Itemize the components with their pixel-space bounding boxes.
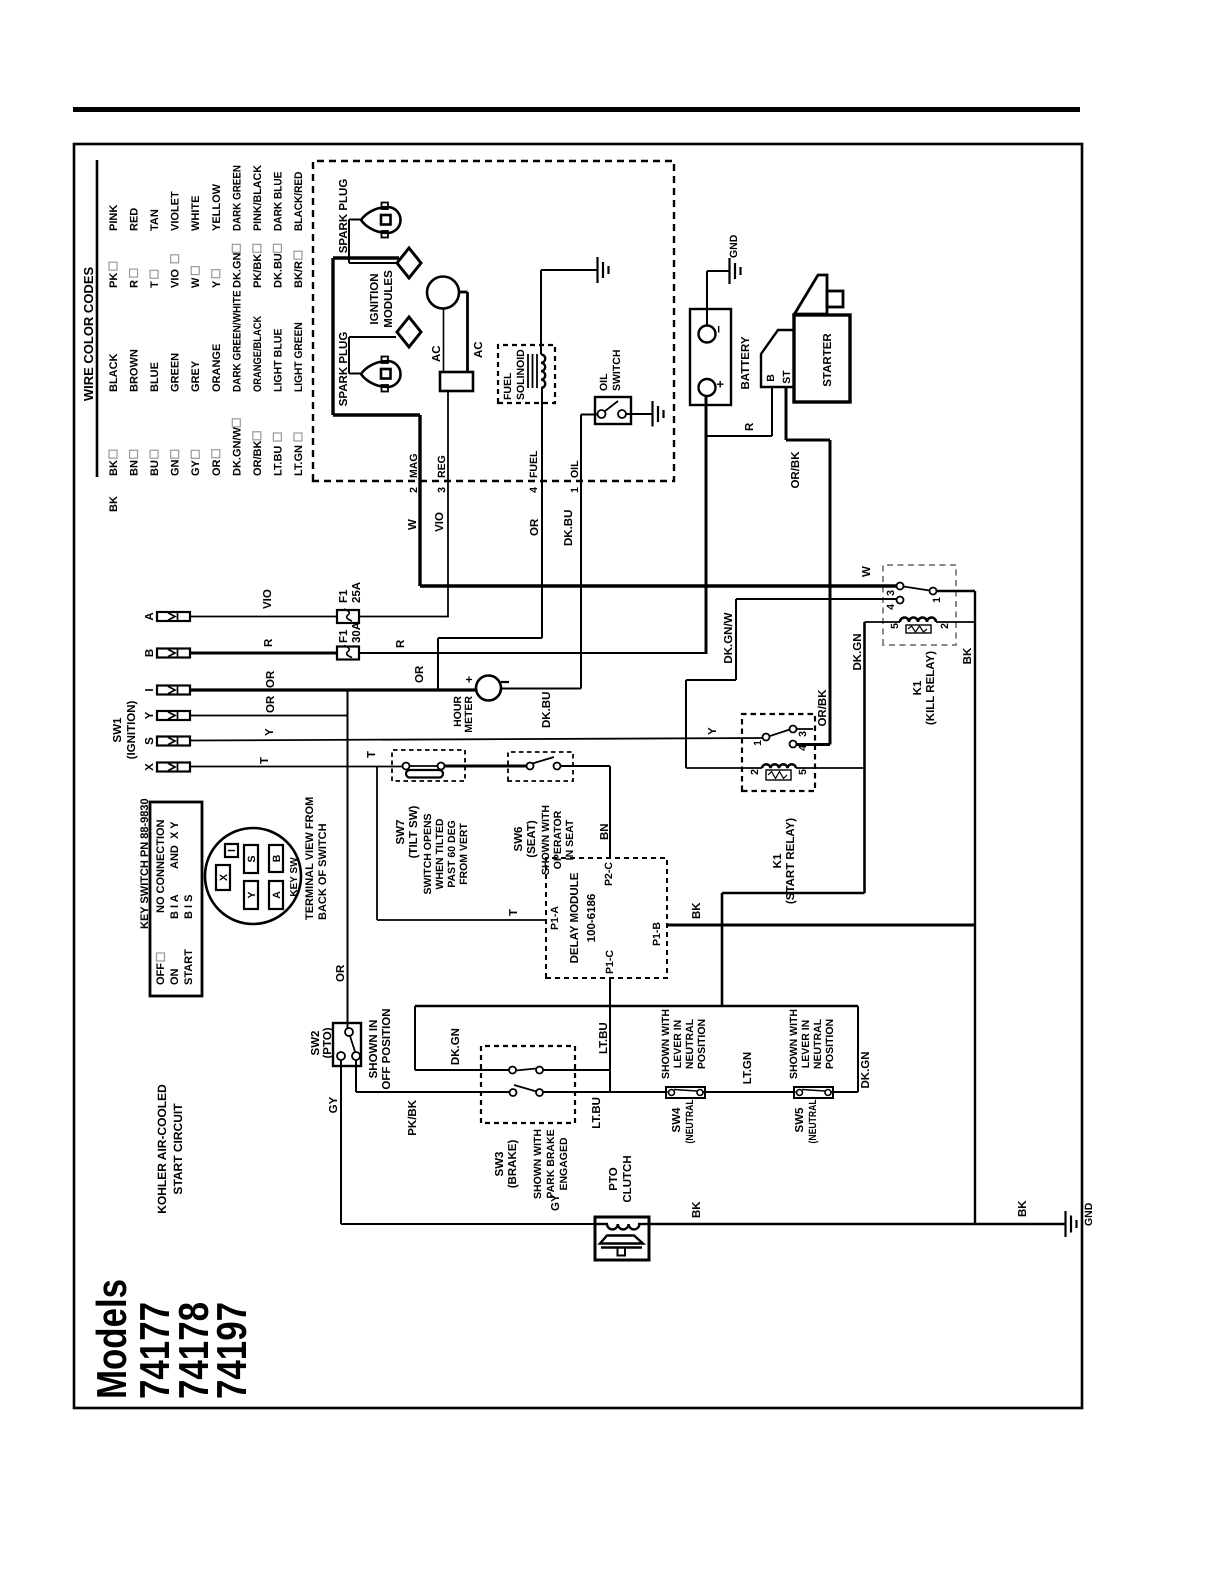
wire BK trunk (649, 1223, 1065, 1225)
wire LT.BU SW3 to SW4 (543, 1091, 668, 1093)
fuse F1 25A (337, 610, 359, 623)
wire DK.BU oil (580, 415, 582, 689)
K1 kill relay resistor (906, 625, 931, 633)
svg-text:(KILL RELAY): (KILL RELAY) (925, 651, 937, 725)
svg-text:R: R (395, 639, 407, 648)
svg-text:Y: Y (264, 728, 276, 736)
svg-text:STARTER: STARTER (822, 333, 834, 387)
svg-text:100-6186: 100-6186 (586, 894, 598, 943)
svg-text:VIO: VIO (434, 512, 446, 532)
svg-text:POSITION: POSITION (696, 1019, 708, 1069)
svg-text:PK/BK: PK/BK (407, 1099, 419, 1135)
svg-text:BK: BK (691, 1201, 703, 1218)
K1 kill relay pin 1 (930, 588, 937, 595)
svg-text:SW6: SW6 (513, 827, 525, 852)
spark plug 2 wire (349, 373, 361, 375)
svg-text:DK.GN/W: DK.GN/W (231, 427, 243, 477)
wire DK.GN trunk (415, 1005, 858, 1008)
svg-text:I: I (226, 849, 238, 852)
svg-text:OR/BK: OR/BK (252, 441, 264, 477)
svg-text:BK: BK (108, 496, 120, 512)
fuel solenoid coil (541, 354, 545, 388)
svg-text:OR: OR (335, 964, 347, 982)
spark plug 1 wire (349, 219, 361, 221)
svg-text:LT.BU: LT.BU (272, 446, 284, 476)
svg-text:DK.BU: DK.BU (272, 253, 284, 288)
svg-text:SW2: SW2 (310, 1031, 322, 1056)
K1 kill relay pin 4 (897, 597, 904, 604)
svg-text:BROWN: BROWN (129, 349, 141, 392)
wire PK/BK from SW2 to SW3 (355, 1060, 357, 1092)
svg-text:PINK/BLACK: PINK/BLACK (252, 165, 264, 231)
svg-text:YELLOW: YELLOW (211, 183, 223, 231)
wire OR fuel (541, 388, 543, 638)
svg-text:PK/BK: PK/BK (252, 254, 264, 288)
svg-text:START CIRCUIT: START CIRCUIT (171, 1103, 185, 1195)
switch SW5 (NEUTRAL) (794, 1087, 833, 1098)
wire battery - to ground (706, 271, 708, 326)
svg-text:LT.BU: LT.BU (598, 1022, 610, 1054)
svg-text:OR/BK: OR/BK (817, 689, 829, 727)
ignition module 1 (397, 248, 421, 278)
wire W to kill relay pin 3 (thick) (420, 584, 897, 587)
svg-text:S: S (246, 855, 258, 862)
svg-text:BATTERY: BATTERY (740, 336, 752, 389)
svg-text:−: − (711, 325, 726, 333)
svg-text:B I A: B I A (169, 894, 181, 919)
terminal view box I (225, 844, 238, 857)
svg-text:GND: GND (728, 234, 740, 258)
wire Y from terminal S to start relay pin 1 (190, 738, 763, 741)
svg-text:K1: K1 (912, 680, 924, 695)
terminal view box A (269, 881, 283, 909)
switch SW4 (NEUTRAL) (666, 1087, 705, 1098)
terminal view box Y (244, 881, 258, 909)
wire BK kill relay pin 1 (937, 590, 976, 592)
svg-text:NO CONNECTION: NO CONNECTION (155, 819, 167, 913)
svg-text:KOHLER AIR-COOLED: KOHLER AIR-COOLED (155, 1084, 169, 1214)
svg-text:DARK GREEN: DARK GREEN (231, 165, 243, 231)
wire W inside engine box (418, 415, 421, 586)
svg-text:SWITCH OPENS: SWITCH OPENS (422, 813, 434, 894)
svg-text:SW7: SW7 (395, 820, 407, 845)
svg-text:2: 2 (749, 769, 761, 775)
K1 kill relay arm (904, 587, 930, 591)
svg-text:P1-B: P1-B (651, 922, 663, 946)
battery (690, 309, 731, 405)
svg-text:OR: OR (211, 459, 223, 476)
svg-text:1: 1 (931, 597, 943, 603)
spark plug 2 (361, 361, 401, 387)
wire DK.GN SW5 to trunk (831, 1091, 858, 1093)
K1 start relay pin 3 (790, 726, 797, 733)
svg-text:AC: AC (473, 341, 485, 358)
svg-text:DK.GN: DK.GN (852, 633, 864, 670)
ground fuel solenoid (596, 257, 598, 283)
svg-text:LT.GN: LT.GN (742, 1052, 754, 1084)
svg-text:SWITCH: SWITCH (611, 350, 623, 391)
svg-text:FROM VERT: FROM VERT (458, 823, 470, 885)
svg-text:R: R (744, 422, 756, 431)
svg-text:OIL: OIL (598, 373, 610, 391)
wire fuel solenoid to ground (540, 270, 542, 354)
svg-text:TERMINAL VIEW FROM: TERMINAL VIEW FROM (304, 797, 316, 920)
wire VIO from terminal A (190, 616, 337, 618)
SW3 contacts DK.GN side (509, 1067, 516, 1074)
svg-text:5: 5 (889, 623, 901, 629)
svg-text:P1-A: P1-A (549, 906, 561, 930)
svg-text:PAST 60 DEG: PAST 60 DEG (446, 820, 458, 888)
regulator (440, 372, 473, 391)
node OR branch to SW2 (347, 689, 349, 1028)
svg-text:B I S: B I S (183, 895, 195, 919)
svg-text:GREY: GREY (190, 360, 202, 392)
svg-text:Y: Y (707, 727, 719, 735)
starter nose (795, 275, 828, 314)
svg-text:SW5: SW5 (794, 1107, 806, 1133)
svg-text:X: X (144, 763, 156, 771)
svg-text:METER: METER (463, 696, 475, 733)
svg-text:RED: RED (129, 208, 141, 231)
svg-text:2: 2 (408, 487, 420, 493)
svg-text:A: A (271, 891, 283, 899)
ground oil switch (626, 413, 652, 415)
svg-text:W: W (190, 277, 202, 288)
wire R below fuse to battery + (359, 652, 707, 654)
svg-text:BN: BN (129, 460, 141, 476)
svg-text:A: A (144, 612, 156, 620)
svg-text:DK.GN: DK.GN (450, 1028, 462, 1065)
wire T branch to delay module P1-A (376, 767, 378, 921)
ignition module 2 (397, 317, 421, 347)
svg-text:LEVER IN: LEVER IN (672, 1020, 684, 1068)
wire LT.BU from P1-C (609, 978, 611, 1093)
svg-text:4: 4 (885, 604, 897, 610)
fuse F1 30A (337, 647, 359, 660)
svg-text:F1: F1 (338, 589, 350, 603)
svg-text:Models: Models (88, 1279, 135, 1399)
svg-text:LT.BU: LT.BU (591, 1097, 603, 1129)
svg-text:GND: GND (1083, 1202, 1095, 1226)
svg-text:VIO: VIO (170, 269, 182, 288)
K1 start relay resistor (766, 770, 791, 780)
wire T from terminal X to SW7 (190, 766, 403, 768)
terminal view box X (216, 865, 230, 890)
svg-text:NEUTRAL: NEUTRAL (812, 1018, 824, 1069)
svg-text:BK: BK (108, 460, 120, 476)
svg-text:X Y: X Y (169, 821, 181, 839)
svg-text:BN: BN (599, 823, 611, 840)
svg-text:DARK BLUE: DARK BLUE (272, 172, 284, 231)
K1 start relay pin 4 (790, 741, 797, 748)
starter small block (827, 291, 843, 307)
wire T SW7 to SW6 (thick) (445, 765, 527, 768)
svg-text:MAG: MAG (408, 454, 420, 479)
svg-text:1: 1 (569, 487, 581, 493)
spark plug 1 (361, 207, 401, 233)
svg-text:Y: Y (211, 280, 223, 288)
svg-text:BACK OF SWITCH: BACK OF SWITCH (317, 823, 329, 920)
K1 start relay coil (686, 767, 762, 769)
svg-text:T: T (508, 909, 520, 916)
svg-text:MODULES: MODULES (383, 270, 395, 328)
wire AC thin (443, 309, 445, 373)
svg-text:(BRAKE): (BRAKE) (507, 1140, 519, 1189)
svg-text:R: R (263, 638, 275, 647)
svg-text:5: 5 (797, 769, 809, 775)
svg-text:B: B (144, 649, 156, 657)
svg-text:DELAY MODULE: DELAY MODULE (569, 872, 581, 963)
svg-text:SHOWN WITH: SHOWN WITH (532, 1129, 544, 1199)
svg-text:+: + (713, 380, 728, 388)
wire VIO below fuse to REG (359, 616, 448, 618)
wire BK from P1-B (667, 924, 975, 927)
svg-text:OFF POSITION: OFF POSITION (381, 1008, 393, 1089)
K1 kill relay pin 3 (897, 583, 904, 590)
terminal view box S (244, 845, 258, 873)
wire OR/BK starter ST to start relay pin 4 (785, 387, 788, 440)
fuel solenoid box (498, 345, 555, 403)
svg-text:LEVER IN: LEVER IN (800, 1020, 812, 1068)
svg-text:PINK: PINK (108, 205, 120, 231)
svg-text:OR: OR (265, 670, 277, 688)
wire BN from SW6 to delay module P2-C (561, 765, 611, 767)
svg-text:BU: BU (149, 460, 161, 476)
wire SW3 to P1-C junction (543, 1069, 610, 1071)
wire R starter B to battery (771, 387, 773, 436)
svg-text:DK.GN/W: DK.GN/W (723, 612, 735, 663)
svg-text:F1: F1 (338, 629, 350, 643)
svg-text:REG: REG (436, 455, 448, 478)
svg-text:OIL: OIL (569, 460, 581, 478)
svg-text:VIO: VIO (262, 589, 274, 609)
svg-text:R: R (129, 280, 141, 288)
svg-text:GY: GY (190, 459, 202, 476)
svg-text:PTO: PTO (608, 1167, 620, 1190)
K1 start relay pin3 stub (797, 728, 814, 730)
svg-text:SHOWN WITH: SHOWN WITH (788, 1009, 800, 1079)
wire DK.GN/W kill pin4 to start coil (736, 598, 897, 600)
svg-text:ENGAGED: ENGAGED (558, 1137, 570, 1191)
svg-text:ST: ST (781, 370, 793, 384)
svg-text:OPERATOR: OPERATOR (552, 810, 564, 869)
wire DK.GN from trunk to SW3 (414, 1006, 416, 1070)
svg-text:S: S (144, 737, 156, 745)
svg-text:CLUTCH: CLUTCH (622, 1155, 634, 1202)
svg-text:DK.BU: DK.BU (563, 510, 575, 546)
svg-text:OFF: OFF (155, 963, 167, 985)
svg-text:3: 3 (436, 487, 448, 493)
main border frame (74, 144, 1082, 1408)
wire R from terminal B (190, 652, 337, 655)
svg-text:B: B (765, 374, 777, 382)
engine box (313, 161, 674, 481)
switch SW2 (PTO) (333, 1023, 361, 1066)
svg-text:FUEL: FUEL (528, 450, 540, 478)
svg-text:T: T (149, 281, 161, 288)
svg-text:POSITION: POSITION (824, 1019, 836, 1069)
svg-text:SW1: SW1 (112, 717, 124, 743)
svg-text:30A: 30A (351, 622, 363, 643)
delay module 100-6186 (546, 858, 667, 978)
svg-text:2: 2 (939, 623, 951, 629)
svg-text:VIOLET: VIOLET (170, 191, 182, 231)
wire OR fuel branch (437, 638, 439, 690)
svg-text:DARK GREEN/WHITE: DARK GREEN/WHITE (231, 290, 243, 392)
svg-text:25A: 25A (351, 582, 363, 603)
svg-text:AND: AND (169, 845, 181, 869)
svg-text:OR: OR (414, 665, 426, 683)
svg-text:OR: OR (265, 695, 277, 713)
wire LT.GN SW4 to SW5 (703, 1091, 796, 1093)
svg-text:LT.GN: LT.GN (293, 445, 305, 476)
svg-text:(TILT SW): (TILT SW) (408, 805, 420, 858)
svg-text:GN: GN (170, 459, 182, 476)
svg-text:BK: BK (1017, 1200, 1029, 1217)
svg-text:LIGHT GREEN: LIGHT GREEN (293, 322, 305, 392)
svg-text:DK.GN: DK.GN (860, 1051, 872, 1088)
hour meter (476, 676, 501, 701)
key switch table (150, 802, 202, 996)
starter terminal block (761, 330, 794, 387)
svg-text:T: T (259, 757, 271, 764)
wire GY from SW2 to PTO clutch (340, 1060, 342, 1224)
svg-text:SW4: SW4 (671, 1107, 683, 1133)
svg-text:SHOWN IN: SHOWN IN (368, 1020, 380, 1079)
svg-text:(NEUTRAL): (NEUTRAL) (807, 1097, 819, 1144)
svg-text:BK/R: BK/R (293, 261, 305, 288)
wire OR from terminal I (thick) (190, 688, 477, 691)
svg-text:3: 3 (797, 731, 809, 737)
svg-text:NEUTRAL: NEUTRAL (684, 1018, 696, 1069)
svg-text:P1-C: P1-C (604, 950, 616, 974)
wire DK.GN trunk to kill relay coil (721, 893, 724, 1006)
SW3 contacts PK/BK side (510, 1089, 517, 1096)
svg-text:4: 4 (528, 487, 540, 493)
svg-text:FUEL: FUEL (502, 372, 514, 400)
legend underline (96, 160, 99, 477)
svg-text:BK: BK (691, 902, 703, 919)
svg-text:+: + (462, 676, 476, 683)
K1 start relay arm (769, 730, 789, 737)
K1 kill relay coil (865, 621, 901, 623)
svg-text:WHITE: WHITE (190, 196, 202, 231)
svg-text:ORANGE: ORANGE (211, 344, 223, 392)
svg-text:SW3: SW3 (494, 1152, 506, 1177)
svg-text:OR/BK: OR/BK (790, 451, 802, 489)
svg-text:W: W (861, 566, 873, 577)
relay K1 (START RELAY) (742, 714, 815, 791)
starter body (794, 315, 850, 402)
svg-text:74197: 74197 (208, 1302, 255, 1399)
relay K1 (KILL RELAY) (883, 565, 956, 645)
flywheel alternator (427, 277, 459, 309)
svg-text:P2-C: P2-C (603, 862, 615, 886)
svg-text:IGNITION: IGNITION (369, 273, 381, 324)
ground battery GND (728, 258, 730, 284)
svg-text:BLACK/RED: BLACK/RED (293, 172, 305, 231)
svg-text:(START RELAY): (START RELAY) (785, 818, 797, 904)
page top rule (73, 107, 1080, 112)
svg-text:X: X (218, 874, 230, 881)
svg-text:K1: K1 (772, 853, 784, 868)
svg-text:W: W (407, 519, 419, 530)
svg-text:BK: BK (962, 647, 974, 664)
svg-text:DK.GN: DK.GN (231, 253, 243, 289)
oil switch (595, 397, 631, 424)
svg-text:IN SEAT: IN SEAT (564, 819, 576, 860)
svg-text:SHOWN WITH: SHOWN WITH (540, 805, 552, 875)
svg-text:PK: PK (108, 273, 120, 288)
svg-text:I: I (144, 688, 156, 691)
svg-text:WHEN TILTED: WHEN TILTED (434, 818, 446, 889)
fuel solenoid core bars (527, 354, 529, 388)
svg-text:BLUE: BLUE (149, 362, 161, 392)
svg-text:AC: AC (431, 345, 443, 362)
svg-text:SOLINOID: SOLINOID (515, 349, 527, 400)
svg-text:BLACK: BLACK (108, 353, 120, 392)
svg-text:WIRE COLOR CODES: WIRE COLOR CODES (81, 267, 96, 402)
svg-text:DK.BU: DK.BU (541, 692, 553, 728)
svg-text:(SEAT): (SEAT) (526, 820, 538, 858)
svg-text:ORANGE/BLACK: ORANGE/BLACK (252, 316, 264, 392)
wire OR from terminal Y (190, 715, 348, 717)
svg-text:T: T (366, 751, 378, 758)
svg-text:1: 1 (752, 740, 764, 746)
svg-text:LIGHT BLUE: LIGHT BLUE (272, 329, 284, 393)
svg-text:(NEUTRAL): (NEUTRAL) (684, 1097, 696, 1144)
switch SW6 (SEAT) (508, 752, 573, 781)
switch SW7 (TILT SW) (392, 750, 465, 781)
switch SW3 (BRAKE) (481, 1046, 575, 1123)
wire meter bottom to OIL (501, 688, 581, 690)
PTO clutch (595, 1217, 649, 1260)
svg-text:GY: GY (328, 1096, 340, 1113)
K1 start relay pin 1 (763, 734, 770, 741)
svg-text:3: 3 (885, 590, 897, 596)
wire R battery + feed (705, 397, 708, 654)
svg-text:PARK BRAKE: PARK BRAKE (545, 1129, 557, 1198)
svg-text:TAN: TAN (149, 209, 161, 231)
svg-text:START: START (183, 949, 195, 985)
svg-text:SHOWN WITH: SHOWN WITH (660, 1009, 672, 1079)
wire OR/BK starter ST (785, 387, 788, 440)
ground GND bottom (1064, 1211, 1066, 1237)
svg-text:OR: OR (529, 518, 541, 536)
svg-text:B: B (271, 854, 283, 862)
svg-text:KEY SW: KEY SW (289, 857, 300, 897)
svg-text:ON: ON (169, 968, 181, 985)
svg-text:(IGNITION): (IGNITION) (126, 700, 138, 759)
terminal view box B (269, 845, 283, 872)
wire AC thick (459, 291, 468, 294)
key switch terminal view circle (205, 828, 301, 924)
svg-text:Y: Y (246, 891, 258, 898)
svg-text:Y: Y (144, 711, 156, 719)
svg-text:GREEN: GREEN (170, 353, 182, 392)
